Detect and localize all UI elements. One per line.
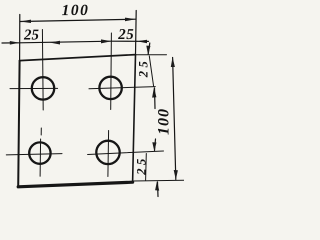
dimension line segment 25 right-top [149,56,153,86]
svg-text:25: 25 [117,27,134,43]
arrowhead left of width 100 [20,20,31,23]
hole bottom-right [96,141,119,164]
center line vertical, bottom-right hole [107,131,110,177]
extension line left, for width 100 [19,15,21,61]
plate outline: left edge [18,61,19,187]
center line horizontal, bottom-left hole [6,154,62,155]
arrowhead right of width 100 [125,18,136,22]
plate outline: right edge [133,55,136,183]
center line vertical, top-left hole [41,30,44,111]
arrowhead pointing left toward first hole center line [50,41,61,45]
arrowhead pointing right toward second hole center line [101,39,111,43]
arrowhead down at bottom edge extension [174,170,178,180]
hole top-left [32,77,54,99]
arrowhead up at top edge extension [171,57,175,67]
extension line right, for width 100 [135,11,138,55]
outer dimension line height 100 [173,58,176,180]
up arrow below bottom edge extension [155,181,159,191]
dimension line segment 25 right-bottom [145,154,148,181]
shared dimension line between 25 spans [20,41,112,43]
center line horizontal, top-left hole [10,87,58,89]
down arrow above top edge (25 right-top) [148,43,150,54]
center line vertical, bottom-left hole [39,139,42,176]
hole bottom-left [29,142,50,163]
svg-text:25: 25 [135,155,149,176]
dimension line 25 top-right [111,40,137,42]
engineering sketch: square plate with four holes, dimensions 100 and 25 [0,0,184,208]
center line vertical, top-right hole [110,33,113,110]
svg-text:100: 100 [156,108,173,135]
dimension line width 100 [20,19,136,21]
svg-text:25: 25 [23,27,40,43]
center line dash above bottom-left hole [40,128,42,135]
up arrow below hole center line (shared) [152,87,156,97]
plate outline: bottom edge (thick) [18,182,132,187]
hole top-right [99,77,121,99]
extension of plate bottom edge to the right [133,179,184,182]
center line horizontal, bottom-right hole (extends right as extension line) [88,151,164,155]
svg-text:100: 100 [62,2,90,19]
plate outline: top edge [20,55,136,61]
extension of plate top edge to the right [136,54,167,56]
arrowhead pointing left at plate right edge [137,40,147,43]
dimension line 25 top-left, outside tail left [2,42,20,44]
svg-text:25: 25 [137,58,151,79]
arrowhead pointing right at plate left edge [10,41,20,45]
outside tail right of 25 top-right [137,40,149,42]
down arrow above lower hole center line (shared) [155,139,156,151]
center line horizontal, top-right hole (extends right as extension line) [89,87,155,89]
